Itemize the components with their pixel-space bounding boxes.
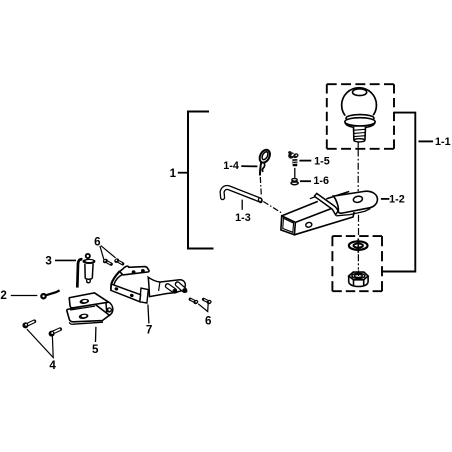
label 5 leader <box>95 327 97 342</box>
tube ridge edge <box>295 209 331 223</box>
svg-text:1-5: 1-5 <box>314 155 330 167</box>
center line plate to washer box <box>358 215 360 236</box>
hairpin clip 1-4 <box>258 148 273 175</box>
label 1-2 leader <box>381 198 389 200</box>
svg-text:1-4: 1-4 <box>223 160 239 172</box>
hitch ball dashed box <box>327 84 394 149</box>
label 1-6 leader <box>300 180 311 182</box>
center line washer to nut <box>357 254 359 269</box>
bolt 1-5 <box>287 151 300 178</box>
svg-text:1-3: 1-3 <box>235 212 251 224</box>
svg-text:4: 4 <box>49 359 56 372</box>
dash-dot pin to tube <box>263 202 281 213</box>
svg-text:1-6: 1-6 <box>313 175 329 187</box>
screws 6 top <box>102 257 123 264</box>
ball mount 1-2 : tube <box>281 192 354 235</box>
screws 6 right <box>190 299 212 305</box>
svg-text:3: 3 <box>45 255 52 268</box>
label 6 right leaders <box>198 303 208 312</box>
tube bottom edge <box>294 212 354 235</box>
hex nut <box>349 270 368 286</box>
cotter pin 2 <box>41 290 59 298</box>
bolts 4 <box>22 321 60 336</box>
bracket 7 <box>111 266 188 303</box>
bar back edge sliver <box>310 197 315 199</box>
label 6 top leaders <box>100 246 104 260</box>
tube side hole <box>305 222 312 228</box>
spring washer <box>349 239 368 253</box>
svg-text:6: 6 <box>94 236 101 249</box>
nut 1-6 <box>291 179 298 185</box>
svg-text:2: 2 <box>0 289 6 302</box>
plates 5 <box>67 293 113 324</box>
washer nut dashed box <box>332 236 382 291</box>
tube top-back edge <box>282 201 318 216</box>
lock pin 3 <box>77 254 95 288</box>
svg-text:1-1: 1-1 <box>435 136 451 148</box>
label 1-3 leader <box>241 200 243 210</box>
svg-text:5: 5 <box>92 343 99 356</box>
svg-text:1: 1 <box>170 167 177 180</box>
bracket group 1 <box>188 112 214 249</box>
label 3 leader <box>55 259 76 261</box>
label 7 leader <box>148 305 149 324</box>
ball mount 1-2 : platform plate <box>334 191 378 213</box>
plate hole <box>353 195 363 203</box>
svg-text:7: 7 <box>146 324 152 337</box>
hitch pin 1-3 <box>222 187 263 203</box>
center line ball to plate <box>357 142 359 148</box>
label 1-4 leader <box>241 165 257 167</box>
plate bottom thickness <box>336 209 370 216</box>
dash-dot clip to pin <box>260 177 261 197</box>
label 1-5 leader <box>299 160 311 162</box>
label 4 leaders <box>27 329 53 358</box>
svg-text:1-2: 1-2 <box>389 194 405 206</box>
svg-text:6: 6 <box>205 314 212 327</box>
label 2 leader <box>11 295 38 297</box>
bracket 1-1 <box>382 113 415 272</box>
label 1 leader <box>178 172 188 174</box>
bent strip of drawbar <box>315 193 338 214</box>
hitch ball <box>342 88 377 142</box>
